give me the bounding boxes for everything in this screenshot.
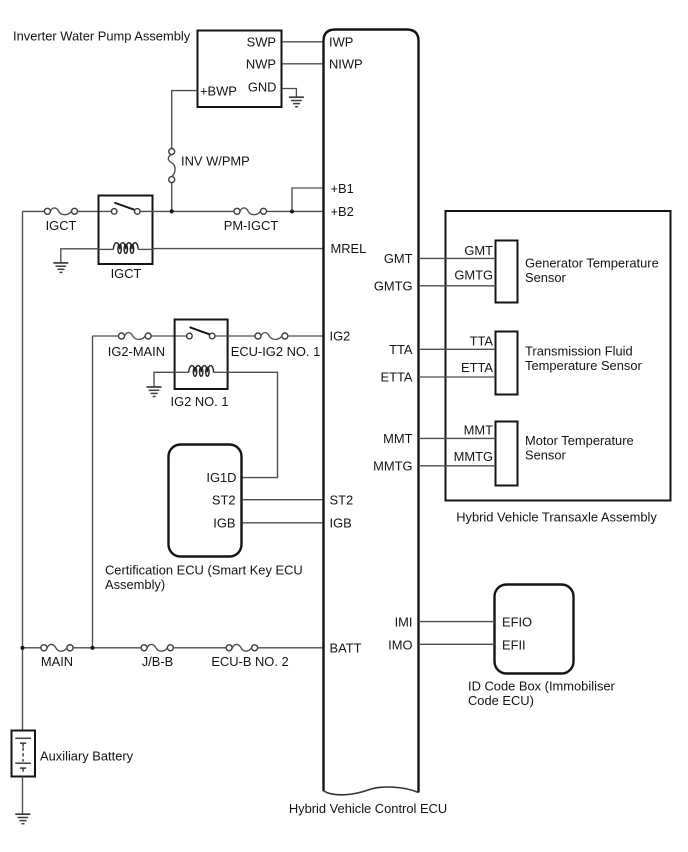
svg-text:Code ECU): Code ECU): [468, 693, 534, 708]
svg-text:IG2 NO. 1: IG2 NO. 1: [170, 394, 228, 409]
svg-text:Hybrid Vehicle Transaxle Assem: Hybrid Vehicle Transaxle Assembly: [456, 510, 657, 525]
vertical wire IG2-MAIN to BATT: [92, 336, 94, 648]
svg-text:ETTA: ETTA: [381, 370, 413, 385]
ID code box: [495, 585, 574, 674]
relay IGCT switch: [111, 203, 140, 215]
label Certification ECU: [105, 563, 303, 593]
fuse IG2-MAIN: [119, 333, 152, 340]
svg-text:IMI: IMI: [395, 614, 413, 629]
svg-text:EFII: EFII: [502, 637, 526, 652]
wire SWP-IWP: [282, 41, 323, 43]
svg-text:MREL: MREL: [331, 241, 367, 256]
svg-text:Auxiliary Battery: Auxiliary Battery: [40, 748, 134, 763]
wire GND to ground: [282, 89, 296, 98]
sensor rect generator: [496, 241, 518, 303]
svg-text:+B2: +B2: [331, 204, 354, 219]
wire IG2-MAIN fuse to relay: [151, 335, 186, 337]
wire coil to ground IG2: [154, 372, 175, 387]
junction dot BATT-left: [20, 646, 24, 650]
relay IG2 NO.1 box: [175, 320, 228, 390]
fuse J/B-B: [141, 644, 173, 651]
wire fuse to IG2 pin: [288, 335, 323, 337]
junction dot BATT-IG2: [90, 646, 94, 650]
ground IG2 relay: [147, 387, 162, 397]
svg-text:EFIO: EFIO: [502, 614, 532, 629]
svg-text:Generator Temperature: Generator Temperature: [525, 256, 659, 271]
relay IGCT box: [99, 196, 153, 265]
svg-text:IGCT: IGCT: [111, 266, 142, 281]
wire coil right to IG1D: [228, 372, 278, 477]
fuse PM-IGCT: [234, 208, 267, 215]
wire ST2: [242, 499, 323, 501]
svg-text:IG2-MAIN: IG2-MAIN: [108, 344, 165, 359]
wire MMT: [419, 437, 496, 439]
svg-text:ECU-B NO. 2: ECU-B NO. 2: [211, 654, 288, 669]
svg-text:MAIN: MAIN: [41, 654, 73, 669]
svg-text:MMT: MMT: [464, 422, 493, 437]
wire relay to +B2 with junction: [140, 210, 234, 212]
inverter water pump assembly box: [198, 31, 282, 108]
wire MAIN fuse to J/B-B: [73, 647, 141, 649]
svg-text:Transmission Fluid: Transmission Fluid: [525, 344, 633, 359]
svg-text:IG2: IG2: [330, 329, 351, 344]
wire MMTG: [419, 465, 496, 467]
wire fuse to +B2 row: [171, 183, 173, 212]
label Generator Temperature Sensor: [525, 256, 659, 285]
svg-text:MMTG: MMTG: [373, 459, 412, 474]
svg-text:ID Code Box (Immobiliser: ID Code Box (Immobiliser: [468, 679, 616, 694]
sensor rect motor: [496, 422, 518, 486]
wire IMO: [419, 643, 495, 645]
svg-text:Hybrid Vehicle Control ECU: Hybrid Vehicle Control ECU: [289, 801, 447, 816]
svg-text:GMTG: GMTG: [374, 278, 413, 293]
svg-text:GMT: GMT: [384, 251, 413, 266]
junction dot B: [290, 209, 294, 213]
wire GMT: [419, 257, 496, 259]
fuse ECU-IG2 NO. 1: [255, 333, 288, 340]
label Motor Temperature Sensor: [525, 433, 634, 462]
svg-text:Temperature Sensor: Temperature Sensor: [525, 358, 642, 373]
wire left stub to IGCT fuse: [23, 210, 45, 212]
wire BATT row start: [23, 647, 41, 649]
ECU box U1 (Hybrid Vehicle Control ECU): [324, 30, 419, 795]
svg-text:Sensor: Sensor: [525, 270, 567, 285]
ground battery: [15, 814, 30, 824]
svg-text:ECU-IG2 NO. 1: ECU-IG2 NO. 1: [231, 344, 321, 359]
svg-text:IG1D: IG1D: [206, 470, 236, 485]
svg-text:BATT: BATT: [330, 641, 362, 656]
wire coil to ground IGCT: [61, 249, 99, 263]
svg-text:TTA: TTA: [389, 342, 413, 357]
wire IG2-MAIN left: [93, 335, 119, 337]
wire +BWP down: [172, 91, 198, 149]
fuse MAIN: [41, 644, 73, 651]
wire ECU-B to BATT pin: [258, 647, 323, 649]
auxiliary battery B1: [12, 731, 36, 777]
wire IMI: [419, 621, 495, 623]
svg-text:SWP: SWP: [247, 34, 276, 49]
svg-text:Assembly): Assembly): [105, 577, 165, 592]
relay IG2 switch: [187, 327, 215, 339]
svg-text:IGCT: IGCT: [46, 218, 77, 233]
label ID Code Box: [468, 679, 616, 709]
label Transmission Fluid Temperature Sensor: [525, 344, 642, 373]
svg-text:GMTG: GMTG: [454, 268, 493, 283]
svg-text:GND: GND: [248, 80, 277, 95]
svg-text:ST2: ST2: [212, 493, 236, 508]
junction dot A: [170, 209, 174, 213]
wire J/B-B to ECU-B: [173, 647, 226, 649]
wire relay to ECU-IG2 fuse: [215, 335, 255, 337]
wire +B1 branch: [292, 188, 323, 211]
svg-text:NIWP: NIWP: [329, 57, 363, 72]
relay IGCT coil: [99, 243, 153, 254]
fuse ECU-B NO. 2: [226, 644, 257, 651]
wire MREL: [153, 248, 323, 250]
relay IG2 coil: [175, 366, 228, 377]
svg-text:J/B-B: J/B-B: [142, 654, 174, 669]
svg-text:MMTG: MMTG: [454, 449, 493, 464]
fuse IGCT: [44, 208, 77, 215]
wire PM-IGCT to +B2: [267, 210, 323, 212]
svg-text:IWP: IWP: [329, 35, 353, 50]
svg-text:+B1: +B1: [331, 181, 354, 196]
wire battery to ground: [22, 777, 24, 815]
svg-text:+BWP: +BWP: [200, 84, 237, 99]
wire NWP-NIWP: [282, 63, 323, 65]
svg-text:Sensor: Sensor: [525, 448, 567, 463]
svg-text:Motor Temperature: Motor Temperature: [525, 433, 634, 448]
wire TTA: [419, 348, 496, 350]
svg-text:IGB: IGB: [213, 515, 235, 530]
transaxle assembly box: [446, 211, 671, 501]
fuse INV W/PMP: [168, 149, 175, 183]
svg-text:NWP: NWP: [246, 56, 276, 71]
svg-text:ETTA: ETTA: [461, 360, 493, 375]
certification ECU box: [169, 445, 242, 557]
svg-text:IGB: IGB: [330, 515, 352, 530]
wire GMTG: [419, 285, 496, 287]
wire IGB: [242, 522, 323, 524]
vertical wire left rail: [22, 211, 24, 730]
svg-text:INV W/PMP: INV W/PMP: [181, 153, 250, 168]
svg-text:ST2: ST2: [330, 493, 354, 508]
svg-text:PM-IGCT: PM-IGCT: [224, 218, 279, 233]
ground pump GND: [289, 97, 304, 107]
svg-text:GMT: GMT: [464, 243, 493, 258]
svg-text:TTA: TTA: [470, 333, 494, 348]
wire ETTA: [419, 376, 496, 378]
ground IGCT relay: [53, 263, 68, 273]
svg-text:Inverter Water Pump Assembly: Inverter Water Pump Assembly: [13, 29, 191, 44]
wire IGCT fuse to relay: [78, 210, 112, 212]
svg-text:MMT: MMT: [383, 431, 412, 446]
svg-text:IMO: IMO: [388, 637, 412, 652]
sensor rect transmission: [496, 332, 518, 395]
svg-text:Certification ECU (Smart Key E: Certification ECU (Smart Key ECU: [105, 563, 303, 578]
